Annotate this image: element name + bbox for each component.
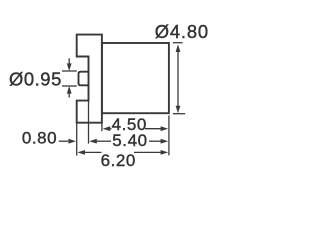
extension line x=76.7 (left edge, for 0.80 and 6.20) bbox=[76, 122, 78, 156]
dim &#216;0.95 top arrow (down) bbox=[68, 58, 70, 64]
svg-text:Ø0.95: Ø0.95 bbox=[9, 68, 62, 89]
svg-text:0.80: 0.80 bbox=[22, 128, 57, 147]
dim 0.80 arrow (points right at x=76.7) bbox=[59, 140, 68, 142]
svg-text:Ø4.80: Ø4.80 bbox=[155, 21, 209, 42]
dim &#216;4.80 top extension segment bbox=[173, 42, 183, 44]
svg-text:6.20: 6.20 bbox=[101, 151, 136, 170]
dim &#216;4.80 vertical dimension line bbox=[177, 49, 179, 107]
component body (right rectangle) bbox=[102, 43, 169, 113]
dim &#216;4.80 bottom arrow (down) bbox=[176, 106, 181, 114]
dim &#216;0.95 top extension line bbox=[62, 70, 77, 72]
extension line x=101.9 (body left, for 4.50) bbox=[101, 123, 103, 132]
dim 4.50 line bbox=[110, 128, 112, 130]
dim &#216;4.80 bottom extension segment bbox=[173, 113, 185, 115]
component flange (left stepped plate) bbox=[77, 35, 102, 123]
dim &#216;0.95 bottom extension line bbox=[62, 85, 77, 87]
svg-text:5.40: 5.40 bbox=[112, 131, 147, 150]
dim &#216;4.80 top arrow (up) bbox=[176, 44, 181, 52]
extension line x=88.5 (step, for 0.80 and 5.40) bbox=[88, 101, 90, 144]
dim 6.20 line bbox=[85, 151, 102, 153]
extension line x=168.9 (body right, for 4.50/5.40/6.20) bbox=[168, 115, 170, 155]
component pin bump on flange bbox=[79, 72, 89, 86]
dim &#216;0.95 bottom arrow (up) bbox=[68, 93, 70, 98]
dim 5.40 line bbox=[97, 140, 112, 142]
